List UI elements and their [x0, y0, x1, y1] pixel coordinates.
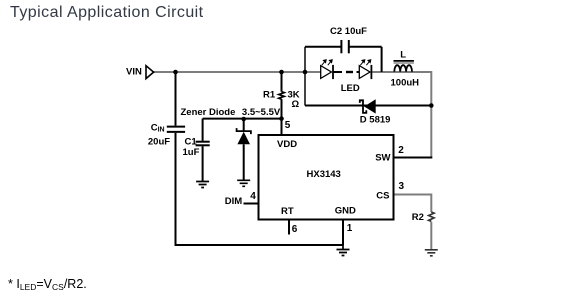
svg-text:CS: CS	[376, 191, 389, 202]
svg-text:HX3143: HX3143	[307, 169, 341, 180]
svg-text:C1: C1	[185, 137, 198, 148]
svg-text:3: 3	[399, 181, 405, 192]
svg-text:RT: RT	[281, 206, 294, 217]
svg-text:* ILED=VCS/R2.: * ILED=VCS/R2.	[8, 277, 87, 292]
svg-text:100uH: 100uH	[391, 78, 420, 89]
svg-text:Typical Application Circuit: Typical Application Circuit	[10, 4, 204, 21]
svg-text:6: 6	[292, 224, 298, 235]
svg-text:CIN: CIN	[151, 123, 165, 134]
svg-text:C2 10uF: C2 10uF	[330, 26, 367, 37]
svg-text:20uF: 20uF	[148, 137, 170, 148]
svg-text:R2: R2	[412, 212, 424, 223]
svg-text:VIN: VIN	[126, 66, 142, 77]
svg-text:1: 1	[347, 223, 353, 234]
svg-text:LED: LED	[341, 83, 360, 94]
svg-text:5: 5	[285, 120, 291, 131]
svg-text:2: 2	[398, 145, 404, 156]
svg-text:Zener Diode3.5~5.5V: Zener Diode3.5~5.5V	[181, 107, 281, 118]
svg-text:SW: SW	[375, 153, 390, 164]
svg-text:R1: R1	[263, 90, 276, 101]
svg-text:4: 4	[250, 191, 256, 202]
svg-text:VDD: VDD	[277, 139, 297, 150]
svg-text:D 5819: D 5819	[360, 115, 391, 126]
svg-text:GND: GND	[335, 206, 356, 217]
svg-text:1uF: 1uF	[183, 147, 200, 158]
svg-text:Ω: Ω	[292, 99, 300, 110]
svg-text:L: L	[400, 49, 406, 60]
svg-text:DIM: DIM	[225, 196, 243, 207]
